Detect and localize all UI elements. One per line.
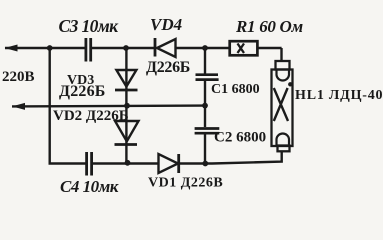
svg-text:VD4: VD4 [150,15,182,34]
svg-text:R1 60 Ом: R1 60 Ом [235,17,304,36]
svg-text:VD1 Д226В: VD1 Д226В [148,176,223,191]
svg-text:VD2 Д226Б: VD2 Д226Б [53,108,129,124]
svg-text:Д226Б: Д226Б [59,83,106,100]
svg-text:С1 6800: С1 6800 [211,82,260,97]
svg-text:С2 6800: С2 6800 [214,130,266,146]
svg-text:HL1 ЛДЦ-40: HL1 ЛДЦ-40 [295,88,383,103]
svg-text:220В: 220В [2,69,35,85]
svg-text:Д226Б: Д226Б [146,59,190,76]
svg-text:С4 10мк: С4 10мк [60,177,119,196]
svg-text:С3 10мк: С3 10мк [59,16,120,36]
